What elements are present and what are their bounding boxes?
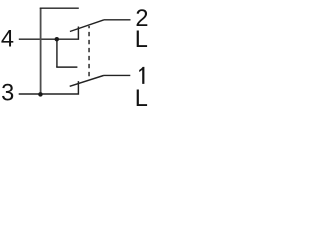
svg-text:L: L (135, 27, 148, 53)
svg-text:4: 4 (1, 26, 14, 52)
wire left rail vertical from terminal 3 node up (40, 8, 42, 94)
wire output to terminal 1 (104, 74, 131, 76)
wire terminal 3 lead with lower fixed post (19, 81, 79, 94)
svg-text:3: 3 (1, 81, 14, 107)
switch S1b moving contact lever (lower) (70, 76, 104, 87)
wire branch vertical from node A down (56, 39, 58, 67)
node B junction dot on terminal 3 line (38, 92, 43, 97)
wire upper throw lead (top horizontal) (40, 7, 79, 9)
node A junction dot on terminal 4 line (55, 37, 60, 42)
mechanical coupling dashed link (88, 26, 90, 80)
wire output to terminal 2 (104, 19, 131, 21)
terminal 1 label (drawn as path, no foot serif) (139, 67, 144, 84)
wire branch horizontal to lower throw end (56, 66, 77, 68)
switch S1a moving contact lever (upper) (70, 20, 104, 32)
wire terminal 4 lead with upper fixed post (19, 27, 79, 40)
svg-text:L: L (135, 86, 148, 112)
